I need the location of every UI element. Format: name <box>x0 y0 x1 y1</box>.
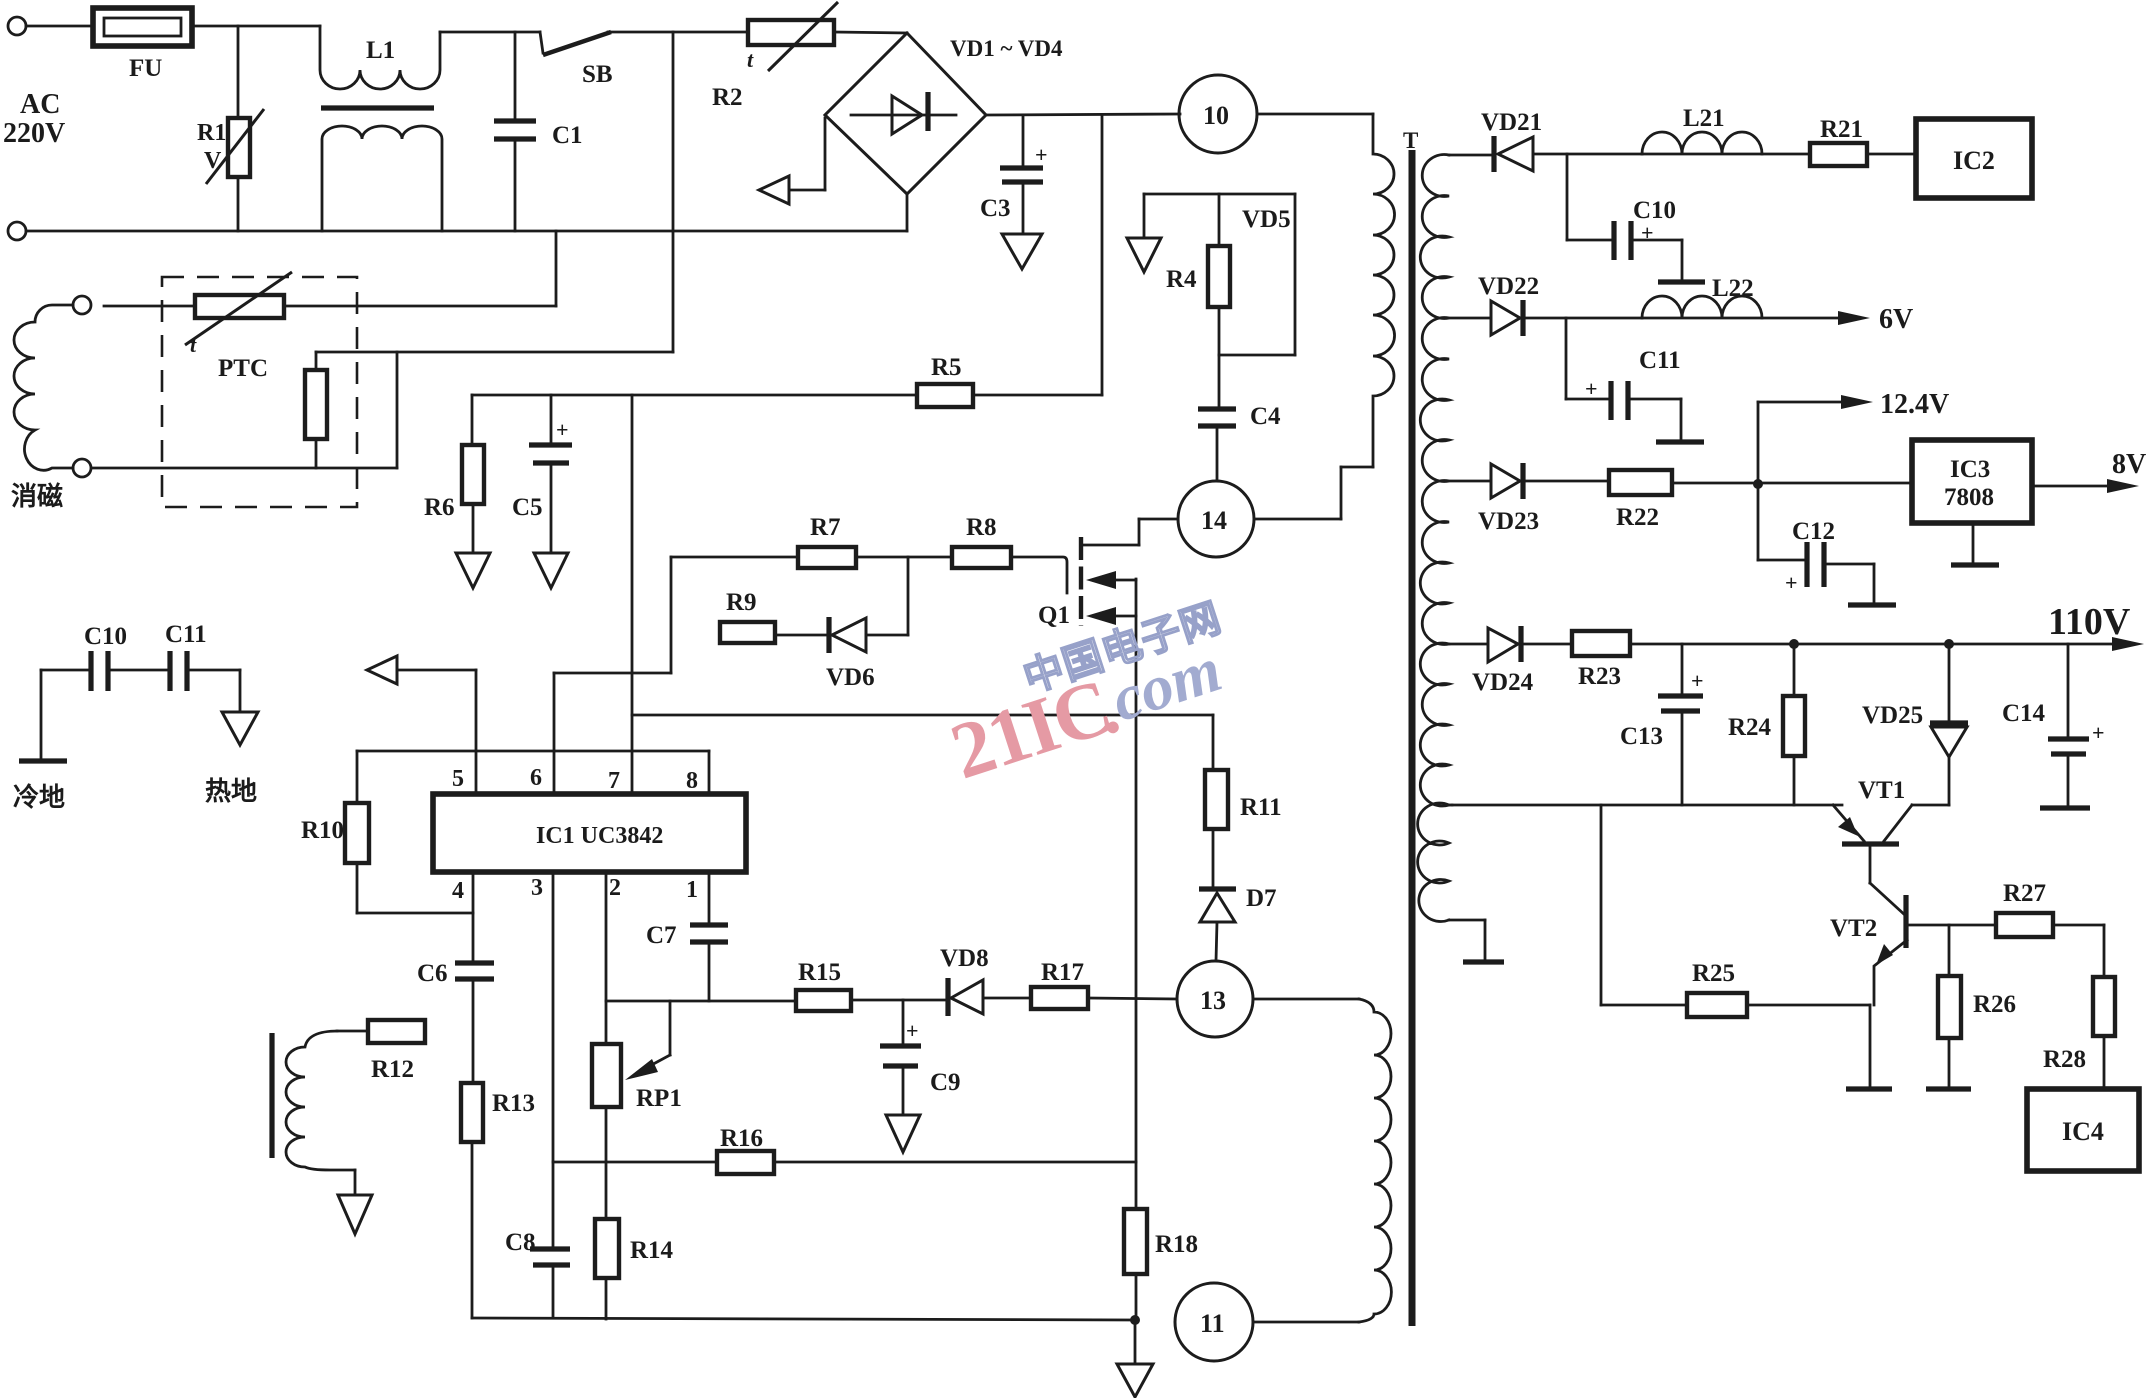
resistor R5 <box>917 384 973 407</box>
capacitor C3 <box>1022 115 1025 166</box>
capacitor C11 output <box>1565 318 1568 399</box>
svg-text:VD24: VD24 <box>1472 669 1534 696</box>
pin 2 wire <box>605 872 608 1044</box>
resistor R18 <box>1124 1209 1147 1274</box>
resistor R21 <box>1810 143 1867 166</box>
svg-text:4: 4 <box>452 878 464 904</box>
resistor R9 <box>720 622 775 643</box>
svg-text:5: 5 <box>452 766 464 792</box>
resistor R25 <box>1600 805 1603 1005</box>
diode VD8 <box>945 978 950 1016</box>
110V rail <box>1630 643 2118 646</box>
svg-text:R25: R25 <box>1692 960 1735 987</box>
svg-text:VD25: VD25 <box>1862 702 1923 729</box>
svg-text:C10: C10 <box>1633 197 1676 224</box>
svg-text:3: 3 <box>531 875 543 901</box>
svg-text:C4: C4 <box>1250 403 1281 430</box>
node 10 <box>1179 75 1257 153</box>
svg-text:VD21: VD21 <box>1481 109 1542 136</box>
svg-text:消磁: 消磁 <box>11 481 63 511</box>
junction dots on 110V rail <box>1789 639 1799 649</box>
svg-text:R4: R4 <box>1166 266 1197 293</box>
diode VD24 <box>1518 626 1523 662</box>
ground arrow below C3 <box>1002 234 1042 269</box>
svg-text:14: 14 <box>1201 506 1227 535</box>
svg-text:IC2: IC2 <box>1953 146 1995 175</box>
wire R13 down to bottom line <box>471 1142 474 1318</box>
svg-text:+: + <box>906 1018 919 1043</box>
svg-text:冷地: 冷地 <box>13 782 65 812</box>
capacitor C12 <box>1757 484 1760 560</box>
svg-text:+: + <box>1035 142 1048 167</box>
hot ground arrow <box>239 670 242 711</box>
diode VD23 <box>1520 463 1525 499</box>
transformer T primary upper winding <box>1373 114 1395 467</box>
transformer core <box>1409 150 1416 1326</box>
capacitor C5 <box>550 395 553 443</box>
ground arrow near VD5 <box>1143 194 1146 237</box>
6V output arrow <box>1838 311 1870 325</box>
wire R7-R8 <box>856 556 952 559</box>
resistor R28 <box>2093 977 2115 1036</box>
svg-text:C8: C8 <box>505 1229 536 1256</box>
svg-text:7: 7 <box>608 768 620 794</box>
ground arrow below C9 <box>886 1115 920 1152</box>
svg-text:110V: 110V <box>2048 601 2131 643</box>
svg-text:R13: R13 <box>492 1090 535 1117</box>
svg-text:t: t <box>190 332 197 357</box>
svg-text:8V: 8V <box>2112 449 2146 480</box>
resistor R23 <box>1572 631 1630 656</box>
wire SB branch down <box>672 32 675 352</box>
bridge rectifier VD1~VD4 <box>825 33 986 194</box>
svg-text:+: + <box>2092 720 2105 745</box>
node 11 <box>1175 1283 1253 1361</box>
resistor R13 <box>461 1083 483 1142</box>
resistor R8 <box>952 547 1011 568</box>
capacitor C6 <box>455 960 494 965</box>
svg-text:6V: 6V <box>1879 304 1913 335</box>
svg-text:11: 11 <box>1200 1309 1225 1338</box>
transformer secondary winding <box>1418 155 1449 922</box>
resistor R12 <box>368 1020 425 1043</box>
wire R8 junction down <box>907 557 910 635</box>
wire degauss bottom line <box>92 467 397 470</box>
wire <box>237 177 240 231</box>
inductor L21 <box>1642 132 1762 154</box>
pin2/pin1 node line <box>606 1000 796 1003</box>
svg-text:R16: R16 <box>720 1125 763 1152</box>
svg-text:220V: 220V <box>3 118 65 149</box>
svg-text:热地: 热地 <box>205 777 257 806</box>
svg-text:L21: L21 <box>1683 105 1725 132</box>
svg-text:R8: R8 <box>966 514 997 541</box>
svg-text:AC: AC <box>20 89 60 120</box>
svg-text:C9: C9 <box>930 1069 961 1096</box>
wire <box>834 32 907 33</box>
svg-text:C12: C12 <box>1792 518 1835 545</box>
svg-text:13: 13 <box>1200 986 1226 1015</box>
12.4V output arrow <box>1758 401 1845 404</box>
Q1 source vertical wire <box>1135 579 1138 1209</box>
svg-text:R15: R15 <box>798 959 841 986</box>
pin 5 / pin 8 / R10 top rail <box>357 750 709 753</box>
svg-text:IC1 UC3842: IC1 UC3842 <box>536 823 663 849</box>
svg-text:R24: R24 <box>1728 714 1772 741</box>
varistor R1 <box>228 118 250 177</box>
svg-text:R18: R18 <box>1155 1231 1198 1258</box>
svg-text:R26: R26 <box>1973 991 2016 1018</box>
resistor R17 <box>1031 987 1088 1009</box>
wire <box>192 25 320 28</box>
svg-text:C7: C7 <box>646 922 677 949</box>
pin 4 wire <box>472 872 475 963</box>
svg-text:VD23: VD23 <box>1478 508 1539 535</box>
svg-text:6: 6 <box>530 765 542 791</box>
AC input terminal top <box>8 17 26 35</box>
resistor R10 <box>356 751 359 803</box>
diode D7 <box>1199 886 1236 891</box>
svg-text:R6: R6 <box>424 494 455 521</box>
IC3 ground <box>1972 523 1975 563</box>
resistor R27 <box>1996 913 2053 937</box>
capacitor C9 <box>902 1000 905 1043</box>
ground arrow bottom <box>1134 1320 1137 1363</box>
secondary bottom tap to ground <box>1449 919 1485 922</box>
off-page arrow left <box>367 656 397 684</box>
svg-text:C1: C1 <box>552 122 583 149</box>
wire <box>396 352 399 468</box>
svg-text:VD5: VD5 <box>1242 206 1291 233</box>
IC2 <box>1916 119 2032 198</box>
resistor R14 <box>595 1219 619 1278</box>
wire R1 branch <box>237 26 240 118</box>
svg-text:C14: C14 <box>2002 700 2046 727</box>
diode VD22 <box>1520 300 1525 336</box>
svg-text:C10: C10 <box>84 623 127 650</box>
bottom common line <box>472 1318 1135 1320</box>
wire PTC to neutral rail <box>284 305 556 308</box>
svg-text:R23: R23 <box>1578 663 1621 690</box>
feedback winding of T <box>269 1033 274 1158</box>
svg-text:R28: R28 <box>2043 1046 2086 1073</box>
svg-text:8: 8 <box>686 768 698 794</box>
capacitor C8 <box>530 1246 570 1251</box>
svg-text:12.4V: 12.4V <box>1880 389 1949 420</box>
zener VD25 <box>1948 644 1951 723</box>
AC neutral rail <box>26 230 907 233</box>
secondary tap wires <box>1449 154 1491 157</box>
svg-text:C13: C13 <box>1620 723 1663 750</box>
capacitor C13 <box>1681 644 1684 694</box>
IC4 <box>2027 1089 2139 1171</box>
resistor R7 <box>798 547 856 568</box>
svg-text:7808: 7808 <box>1944 484 1994 511</box>
svg-text:C11: C11 <box>1639 347 1681 374</box>
svg-text:VD8: VD8 <box>940 945 989 972</box>
resistor R15 <box>796 990 851 1011</box>
resistor R11 <box>1212 715 1215 770</box>
svg-text:RP1: RP1 <box>636 1085 682 1112</box>
wire top rail after L1 <box>440 31 540 34</box>
VD5 loop <box>1144 193 1295 196</box>
svg-text:IC3: IC3 <box>1950 456 1990 483</box>
svg-text:R27: R27 <box>2003 880 2046 907</box>
wire PTC line <box>316 351 673 354</box>
transformer T primary lower winding <box>1359 999 1391 1322</box>
pin 7 wire <box>631 395 634 794</box>
thermistor R2 <box>748 20 834 45</box>
svg-text:R11: R11 <box>1240 794 1282 821</box>
svg-text:L22: L22 <box>1712 275 1754 302</box>
capacitor C14 <box>2067 644 2070 737</box>
svg-text:C5: C5 <box>512 494 543 521</box>
watermark <box>932 595 1248 796</box>
svg-text:IC4: IC4 <box>2062 1117 2104 1146</box>
wire vertical from DC+ to R5 line <box>1101 115 1104 395</box>
resistor R6 <box>471 395 474 445</box>
capacitor C4 <box>1198 406 1236 411</box>
junction dot 12.4V <box>1753 479 1763 489</box>
capacitor C1 <box>514 32 517 121</box>
svg-text:1: 1 <box>686 877 698 903</box>
VT1 base node line <box>1452 804 1842 807</box>
svg-text:R10: R10 <box>301 817 344 844</box>
PTC dashed box <box>162 277 357 507</box>
ground arrow below C5 <box>534 553 568 588</box>
node 13 <box>1177 961 1253 1037</box>
svg-text:R9: R9 <box>726 589 757 616</box>
potentiometer RP1 <box>592 1044 621 1107</box>
pin 6 wire <box>553 673 556 794</box>
degaussing coil <box>14 305 73 470</box>
svg-text:L1: L1 <box>366 37 395 64</box>
switch SB <box>540 32 543 53</box>
resistor R4 <box>1218 194 1221 246</box>
wire bridge bottom to AC rail <box>906 194 909 231</box>
svg-text:T: T <box>1403 128 1418 153</box>
svg-text:R21: R21 <box>1820 116 1863 143</box>
svg-text:V: V <box>204 148 222 174</box>
svg-text:VT2: VT2 <box>1830 915 1877 942</box>
IC3 7808 <box>1912 440 2032 523</box>
svg-text:+: + <box>1585 376 1598 401</box>
PTC thermistor <box>195 295 284 318</box>
svg-text:VD22: VD22 <box>1478 273 1539 300</box>
ground arrow below R6 <box>456 553 490 588</box>
wire degauss top to PTC <box>104 305 195 308</box>
diode VD21 <box>1491 136 1496 172</box>
R5 supply line <box>472 394 917 397</box>
RP1 wiper arrow <box>669 1001 672 1055</box>
svg-text:C6: C6 <box>417 960 448 987</box>
resistor R24 <box>1793 644 1796 696</box>
cold ground <box>40 670 43 759</box>
IC1 UC3842 <box>433 794 746 872</box>
svg-text:t: t <box>747 47 754 72</box>
svg-text:+: + <box>1691 668 1704 693</box>
pin 3 wire <box>552 872 555 1249</box>
svg-text:Q1: Q1 <box>1038 602 1070 629</box>
degauss coil terminals <box>73 296 91 314</box>
resistor R26 <box>1948 925 1951 976</box>
fuse FU <box>93 8 192 46</box>
svg-text:+: + <box>556 417 569 442</box>
capacitor C7 <box>708 872 711 925</box>
svg-text:R12: R12 <box>371 1056 414 1083</box>
svg-text:VD1 ~ VD4: VD1 ~ VD4 <box>950 36 1063 61</box>
svg-text:2: 2 <box>609 875 621 901</box>
inductor L22 <box>1642 296 1762 318</box>
svg-text:C11: C11 <box>165 621 207 648</box>
svg-text:R1: R1 <box>197 120 226 146</box>
sense node line <box>632 714 1213 717</box>
pin 5 wire <box>475 670 478 794</box>
svg-text:R5: R5 <box>931 354 962 381</box>
junction dot <box>1130 1315 1140 1325</box>
diode VD6 <box>826 617 831 653</box>
svg-text:10: 10 <box>1203 101 1229 130</box>
wire <box>26 25 93 28</box>
svg-text:FU: FU <box>129 55 162 82</box>
ground arrow below winding <box>338 1195 372 1234</box>
resistor R16 <box>553 1161 717 1164</box>
node 14 <box>1178 481 1254 557</box>
capacitor C10 output <box>1566 154 1569 240</box>
svg-text:VT1: VT1 <box>1858 777 1905 804</box>
svg-text:C3: C3 <box>980 195 1011 222</box>
svg-text:R7: R7 <box>810 514 841 541</box>
svg-text:+: + <box>1785 570 1798 595</box>
resistor in PTC box <box>315 352 318 370</box>
svg-text:SB: SB <box>582 61 613 88</box>
svg-text:PTC: PTC <box>218 355 268 382</box>
svg-text:R17: R17 <box>1041 959 1084 986</box>
hot ground arrow left of bridge <box>824 118 827 190</box>
resistor R22 <box>1609 470 1672 495</box>
DC+ wire bridge to node 10 <box>986 114 1180 115</box>
svg-text:R22: R22 <box>1616 504 1659 531</box>
svg-text:D7: D7 <box>1246 885 1277 912</box>
svg-text:VD6: VD6 <box>826 664 875 691</box>
AC input terminal bottom <box>8 222 26 240</box>
svg-text:R2: R2 <box>712 84 743 111</box>
pin 8 wire <box>708 751 711 794</box>
svg-text:R14: R14 <box>630 1237 674 1264</box>
